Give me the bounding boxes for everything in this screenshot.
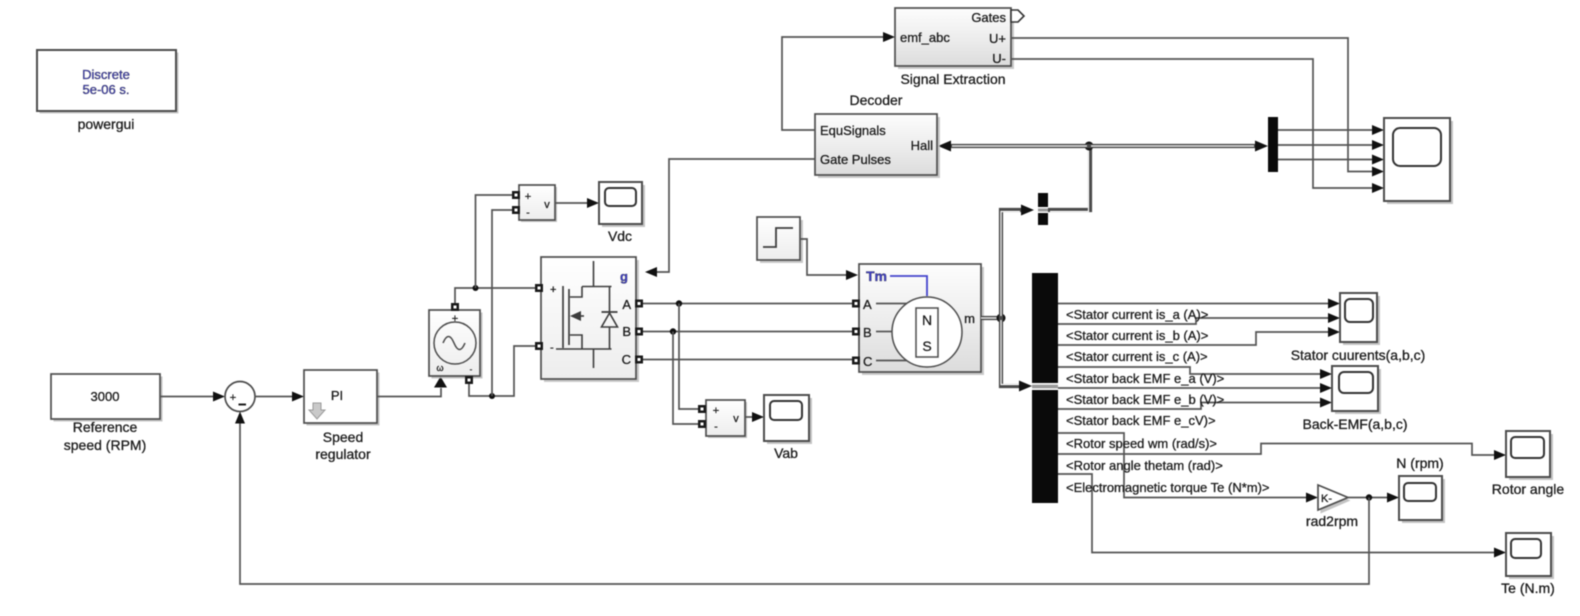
bus wire selector to hall junction [1048,146,1090,212]
voltage measurement Vdc [512,185,557,222]
wire U+ to scope input 4 [1011,38,1384,177]
svg-text:+: + [713,405,719,417]
svg-text:Back-EMF(a,b,c): Back-EMF(a,b,c) [1302,416,1407,432]
node m junction [997,314,1006,323]
wire bus output 4 back EMF e_a to scope [1058,367,1332,379]
wire U- to scope input 5 [1011,59,1384,193]
svg-text:N (rpm): N (rpm) [1396,455,1443,471]
svg-text:A: A [863,297,872,312]
svg-text:emf_abc: emf_abc [900,30,950,45]
wire bus output 2 stator current is_b to scope [1058,313,1340,324]
svg-text:+: + [525,191,531,203]
svg-text:B: B [622,324,631,339]
wire demux output 1 to scope [1278,125,1384,135]
scope Vab [764,395,812,444]
wire bus output 1 stator current is_a to scope [1058,299,1340,309]
constant block Reference speed 3000 [51,374,163,422]
wire phase B tap to Vab minus [673,332,698,425]
wire demux output 3 to scope [1278,155,1384,165]
wire Vdc measurement to Vdc scope [555,198,599,208]
svg-text:<Stator current is_c (A)>: <Stator current is_c (A)> [1066,349,1208,364]
wire step to motor Tm input [800,239,858,280]
bus selector block [1032,273,1058,503]
svg-text:Signal Extraction: Signal Extraction [900,71,1005,87]
scope Te [1506,533,1554,579]
signal extraction block [895,8,1014,69]
svg-text:U-: U- [992,51,1006,66]
wire phase A inverter to motor [643,303,852,305]
wire bus output 6 back EMF e_c to scope [1058,398,1332,410]
svg-text:+: + [550,284,556,296]
svg-text:<Stator current is_a (A)>: <Stator current is_a (A)> [1066,307,1208,322]
svg-text:<Rotor speed wm (rad/s)>: <Rotor speed wm (rad/s)> [1066,436,1217,451]
svg-text:v: v [733,413,739,425]
svg-text:<Stator current is_b (A)>: <Stator current is_b (A)> [1066,328,1208,343]
bus wire hall junction to demux [1089,141,1268,152]
svg-text:<Rotor angle thetam (rad)>: <Rotor angle thetam (rad)> [1066,458,1223,473]
svg-text:Gate Pulses: Gate Pulses [820,152,891,167]
svg-text:Tm: Tm [866,268,887,284]
wire DC plus to Vdc measurement [476,195,513,288]
scope stator currents [1340,293,1380,345]
bus wire hall junction to decoder hall input [938,141,1089,152]
node DC minus junction [489,393,495,399]
scope rotor angle [1506,431,1553,480]
wire DC plus rail source to inverter [455,288,536,303]
svg-text:-: - [550,342,554,354]
svg-text:Decoder: Decoder [850,92,903,108]
svg-text:+: + [230,392,236,404]
svg-text:Discrete: Discrete [82,67,130,82]
sum block [225,382,255,412]
svg-text:<Stator back EMF e_b (V)>: <Stator back EMF e_b (V)> [1066,392,1224,407]
node DC plus junction [473,285,479,291]
svg-text:Vab: Vab [774,445,798,461]
wire bus output 5 back EMF e_b to scope [1058,383,1332,393]
wire 3000 to sum [160,392,225,402]
PI block Speed regulator [304,370,380,426]
svg-text:Te (N.m): Te (N.m) [1501,580,1555,596]
inverter mosfet bridge block [535,257,643,382]
svg-text:<Stator back EMF e_a (V)>: <Stator back EMF e_a (V)> [1066,371,1224,386]
wire gate pulses from decoder to inverter g input [645,159,815,277]
wire Vab measurement to Vab scope [745,412,764,422]
scope Vdc [599,182,645,227]
output port chevron Gates [1011,10,1024,22]
wire sum to PI [255,392,304,402]
selector block small [1038,193,1048,225]
wire phase B inverter to motor [643,331,852,333]
svg-text:S: S [922,338,931,354]
svg-text:rad2rpm: rad2rpm [1306,513,1358,529]
svg-text:v: v [544,199,550,211]
svg-text:PI: PI [331,388,343,403]
demux block [1268,117,1278,172]
svg-text:K-: K- [1321,493,1332,505]
svg-text:U+: U+ [989,31,1006,46]
step block [757,217,803,263]
svg-text:-: - [714,421,718,433]
bus wire motor m output to junction [981,316,1001,320]
decoder block [815,114,940,178]
node phase A tap [676,300,682,306]
powergui block [37,50,179,114]
node speed junction [1366,494,1372,500]
svg-text:5e-06 s.: 5e-06 s. [83,82,130,97]
wire DC minus rail source to inverter [469,346,536,396]
voltage measurement Vab [698,400,747,438]
svg-text:3000: 3000 [91,389,120,404]
svg-text:-: - [526,207,530,219]
wire speed feedback to sum [235,412,1369,585]
scope N rpm [1399,476,1445,523]
wire bus output 3 stator current is_c to scope [1058,327,1340,345]
controlled voltage source block [429,303,483,384]
svg-text:<Stator back EMF e_cV)>: <Stator back EMF e_cV)> [1066,413,1216,428]
wire bus output 9 torque Te to scope [1058,474,1506,558]
svg-text:m: m [964,311,975,326]
svg-text:EquSignals: EquSignals [820,123,886,138]
svg-text:Vdc: Vdc [608,228,632,244]
wire demux output 2 to scope [1278,140,1384,150]
wire PI to controlled source input [377,377,447,397]
svg-text:powergui: powergui [78,116,135,132]
scope back EMF [1332,366,1381,414]
motor BLDC machine block [852,264,984,375]
svg-text:B: B [863,325,872,340]
transistor mosfet with diode icon inside inverter [556,261,618,368]
wire gain to N rpm scope [1348,493,1399,503]
svg-text:Gates: Gates [971,10,1006,25]
svg-text:Reference: Reference [73,419,138,435]
svg-text:regulator: regulator [315,446,371,462]
bus wire m junction down to bus selector [1001,318,1032,392]
svg-text:speed (RPM): speed (RPM) [64,437,146,453]
gain rad2rpm [1318,485,1351,514]
svg-text:<Electromagnetic torque Te (N*: <Electromagnetic torque Te (N*m)> [1066,480,1270,495]
svg-text:Hall: Hall [911,138,934,153]
scope hall gates top right [1384,118,1453,204]
wire decoder EquSignals to signal extraction input [782,32,895,130]
svg-text:ω: ω [436,363,443,373]
svg-text:Speed: Speed [323,429,363,445]
svg-text:-: - [470,365,473,374]
wire bus output 8 rotor angle to scope [1058,444,1506,461]
svg-text:C: C [622,352,631,367]
node phase B tap [670,328,676,334]
svg-text:g: g [620,269,628,284]
node hall junction [1085,142,1094,151]
svg-text:C: C [863,354,872,369]
wire bus output 7 rotor speed to gain [1058,433,1318,503]
svg-text:Rotor angle: Rotor angle [1492,481,1565,497]
bus wire m junction up to selector [1001,205,1034,319]
svg-text:Stator cuurents(a,b,c): Stator cuurents(a,b,c) [1291,347,1426,363]
svg-text:N: N [922,312,932,328]
wire DC minus to Vdc measurement [492,210,512,396]
svg-text:A: A [622,297,631,312]
svg-text:+: + [452,313,458,325]
wire phase A tap to Vab plus [679,304,698,410]
wire phase C inverter to motor [643,359,852,361]
